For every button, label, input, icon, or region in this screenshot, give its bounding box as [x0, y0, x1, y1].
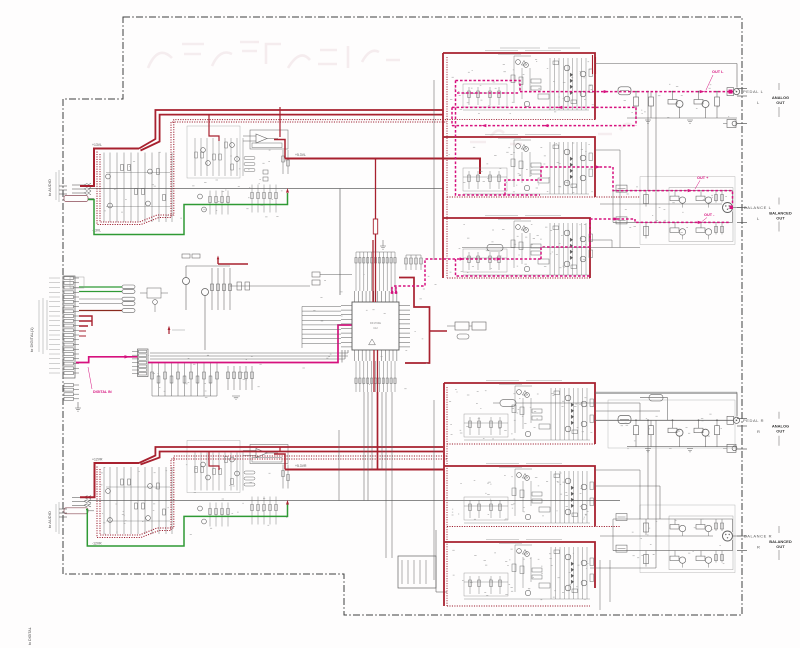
- amp block L1 internals: [463, 51, 593, 111]
- wire red pair below U12 (red): [374, 350, 378, 392]
- analog out network L: [595, 64, 789, 128]
- arrow OUT+: [596, 165, 601, 168]
- wire long verticals below U12: [339, 392, 392, 558]
- arrow red at green end: [286, 188, 289, 193]
- svg-text:R: R: [757, 429, 760, 434]
- amp block L2 internals: [463, 135, 593, 195]
- dotted bottom L1 (dark red): [447, 119, 595, 121]
- speckle power L: [104, 150, 287, 218]
- L power block internals (Q/R/C cluster): [64, 126, 289, 222]
- wire 26V stub (red): [593, 55, 596, 74]
- dotted bottom L3 (dark red): [447, 277, 590, 279]
- wire +12V staircase inner (red): [141, 452, 444, 465]
- wire vertical left of R blocks: [433, 400, 435, 580]
- connector J2 + ground: [64, 384, 81, 412]
- wire R2 feed: [595, 485, 660, 487]
- wire mid rail R (gray): [89, 500, 620, 502]
- dotted bottom R2 (dark red): [447, 526, 620, 528]
- speckle balance L: [625, 187, 730, 233]
- amp blocks L left edge (red): [442, 53, 444, 278]
- svg-text:+12VR: +12VR: [92, 458, 103, 462]
- op-chip U12 DF1704 with pins: [341, 291, 410, 361]
- wire vertical left of L blocks: [433, 80, 435, 260]
- wire R1 feed: [493, 402, 500, 404]
- wire dotted loop B (dark red): [100, 120, 447, 222]
- signal path OUT+ (magenta): [541, 167, 733, 205]
- speckle amp R2: [452, 473, 589, 520]
- amp block L3 internals: [463, 216, 593, 276]
- dotted bottom L2 (dark red): [447, 196, 640, 198]
- signal path L1 weave top (magenta): [456, 81, 521, 94]
- svg-text:OUT L: OUT L: [712, 70, 724, 74]
- resistor array below U12: [355, 361, 396, 392]
- component box bottom center: [398, 556, 436, 588]
- wire red spur (red): [430, 330, 448, 332]
- svg-text:PEDAL R: PEDAL R: [743, 418, 764, 423]
- wire red stub rows: [79, 331, 86, 336]
- connector J digital (21-pin): [49, 276, 79, 378]
- arrow digital in: [124, 355, 129, 358]
- signal path return upper (magenta): [452, 106, 636, 108]
- wire dotted loop RB (dark red): [100, 456, 447, 535]
- svg-text:+5.3VR: +5.3VR: [295, 464, 307, 468]
- caps at op-amp outlet: [263, 170, 268, 174]
- wire op-amp out to +5.3VL (red): [274, 140, 285, 159]
- junction dots R analog: [635, 419, 637, 421]
- signal path L3 weave (magenta): [541, 219, 590, 259]
- dotted vertical L blocks (dark red): [446, 57, 448, 278]
- wire verticals analog->balance L: [647, 92, 649, 191]
- wire dotted loop RA (dark red): [97, 459, 447, 538]
- analog out network R: [595, 392, 789, 452]
- wire +12VR rail (red): [80, 463, 139, 497]
- svg-text:OUT: OUT: [776, 544, 785, 549]
- svg-text:U12: U12: [373, 327, 378, 330]
- wire +5.3VL rail (red): [285, 159, 480, 175]
- speckle analog R: [621, 414, 722, 449]
- wire op-amp out to +5.3VR (red): [274, 454, 285, 470]
- wire gray top R feed: [595, 393, 737, 395]
- amp block R1 internals: [464, 381, 594, 441]
- ground mark above U12 right: [380, 240, 386, 249]
- faint watermark: [148, 42, 632, 144]
- jumper capsules green rows: [122, 285, 135, 289]
- wire DIGITAL IN (pink): [76, 325, 352, 363]
- balance out network R: [613, 505, 792, 573]
- speckle amp R3: [452, 549, 588, 600]
- amp block L1 outline (red): [443, 53, 595, 120]
- dotted vertical R blocks (dark red): [446, 387, 448, 606]
- svg-text:BALANCE R: BALANCE R: [744, 534, 772, 539]
- speckle lower connector: [148, 355, 262, 397]
- wire vertical x436: [435, 530, 437, 592]
- wire dotted loop A (dark red): [97, 122, 447, 225]
- amp block R2 internals: [464, 464, 594, 524]
- svg-text:to DIGITAL(1): to DIGITAL(1): [29, 327, 34, 352]
- wire gray row 4: [79, 303, 122, 305]
- left border ticks bottom: [59, 508, 67, 510]
- signal path OUT L (magenta): [520, 91, 733, 93]
- wire +13VL rail (red): [80, 149, 139, 187]
- wire +5.3VR rail (red): [285, 469, 444, 471]
- wire green return R: [86, 505, 288, 547]
- arrows on feed: [460, 257, 465, 260]
- arrows return path: [543, 124, 548, 127]
- dotted bottom R3 (dark red): [447, 605, 590, 607]
- arrow OUT-: [614, 217, 619, 220]
- arrow +3.3V supply: [168, 329, 170, 334]
- amp block R1 outline (red): [444, 383, 595, 444]
- wire rail-to-clusterB R (red): [209, 447, 280, 470]
- logic cluster right of U12: [447, 322, 486, 339]
- wire green row 2: [79, 291, 122, 293]
- jumper capsule dark red row: [122, 309, 135, 313]
- wire mid rail L (gray): [89, 188, 443, 190]
- amp blocks R left edge (red): [443, 383, 445, 606]
- speckle power R: [100, 465, 287, 535]
- wire red box right of U12 (red): [399, 278, 430, 364]
- speckle amp L3: [450, 224, 587, 272]
- speckle amp L1: [450, 60, 594, 114]
- amp block L2 outline (red): [443, 137, 595, 197]
- wire green row 1: [79, 286, 122, 288]
- wire gray row 3: [79, 298, 122, 300]
- wire green return L: [88, 193, 288, 235]
- wire gray R bottom verticals: [599, 560, 601, 610]
- speckle analog L: [624, 84, 736, 117]
- svg-text:OUT: OUT: [776, 100, 785, 105]
- wire balance L feed: [462, 247, 640, 249]
- wire gray R loop rect: [608, 400, 735, 448]
- signal path loop right vertical (magenta): [635, 107, 637, 125]
- signal path U12 to L3 (magenta): [392, 259, 541, 294]
- wire bus risers: [342, 350, 348, 363]
- arrowheads into U12: [390, 288, 393, 293]
- junction dots L analog: [635, 91, 637, 93]
- label audio power subtext top: [55, 172, 57, 200]
- svg-text:DIGITAL IN: DIGITAL IN: [93, 390, 112, 394]
- speckle balance R: [632, 519, 725, 563]
- arrows OUT L: [604, 90, 609, 93]
- amp block R2 outline (red): [444, 466, 595, 527]
- svg-text:OUT: OUT: [776, 216, 785, 221]
- wire red feed to R rail (red): [377, 392, 379, 470]
- amp block R3 internals: [464, 540, 594, 600]
- signal path OUT- (magenta): [590, 219, 729, 222]
- wire verticals analog->balance R: [647, 420, 649, 519]
- page border (dash-dot): [63, 17, 742, 615]
- wire gray net L3 out: [590, 239, 612, 241]
- wire vertical from rail to IC area: [339, 189, 341, 296]
- speckle center: [302, 274, 436, 388]
- right border ticks: [737, 89, 747, 551]
- wire rail-to-clusterB (red): [209, 107, 280, 141]
- amp block L3 outline (red): [443, 218, 590, 278]
- label digital subtext: [38, 300, 40, 352]
- wire bus bundle gray: [150, 352, 348, 354]
- svg-text:+13VL: +13VL: [92, 143, 102, 147]
- wire main analog R (gray): [595, 419, 733, 421]
- wire dark red row: [79, 310, 122, 312]
- R power block internals (Q/R/C cluster): [64, 441, 289, 535]
- speckle amp R1: [449, 390, 594, 440]
- arrow red at green end R: [286, 500, 289, 505]
- signal path L2 weave (magenta): [505, 167, 541, 195]
- wire R3 feed: [590, 567, 656, 569]
- jack dot magenta: [729, 90, 733, 94]
- wire +13V staircase inner (red): [141, 115, 444, 151]
- svg-text:DF1704E: DF1704E: [370, 321, 381, 325]
- svg-text:to AUDIO: to AUDIO: [47, 511, 52, 528]
- wire red short rail mid: [218, 259, 248, 265]
- svg-text:to DIGITAL: to DIGITAL: [28, 627, 32, 645]
- dotted bottom R1 (dark red): [447, 443, 595, 445]
- speckle amp L2: [449, 143, 593, 195]
- wire red steps in connector: [79, 316, 92, 326]
- svg-text:OUT: OUT: [776, 429, 785, 434]
- wire gray R mid lines: [595, 410, 660, 412]
- balance out network L: [613, 177, 792, 245]
- svg-text:-12VR: -12VR: [92, 542, 102, 546]
- wire stubs left of U12: [302, 307, 341, 349]
- misc top gray text: [500, 47, 540, 49]
- jumper capsules gray rows: [122, 297, 135, 301]
- svg-text:R: R: [757, 545, 760, 550]
- label audio power subtext bottom: [55, 504, 57, 532]
- transistor cluster mid-left: [70, 254, 352, 350]
- resistor array above U12: [355, 252, 396, 291]
- signal path big loop left (magenta): [456, 81, 541, 196]
- buffer IC + resistor array cluster: [132, 349, 253, 399]
- amp block R3 outline (red): [444, 542, 595, 588]
- svg-text:OUT -: OUT -: [704, 213, 715, 217]
- svg-text:BALANCE L: BALANCE L: [744, 205, 772, 210]
- resistor cluster above right of U12: [405, 255, 423, 270]
- signal path return lower (magenta): [452, 107, 636, 125]
- wire +12V staircase outer (red): [139, 447, 443, 463]
- svg-text:+5.3VL: +5.3VL: [295, 153, 306, 157]
- svg-text:OUT +: OUT +: [697, 176, 709, 180]
- wire gray net L mid: [595, 149, 620, 151]
- svg-text:to AUDIO: to AUDIO: [47, 179, 52, 196]
- svg-text:PEDAL L: PEDAL L: [743, 89, 764, 94]
- wire red pair to U12 top (red): [373, 159, 376, 302]
- left border ticks top: [59, 185, 67, 187]
- signal path L3 bottom (magenta): [456, 259, 591, 276]
- wire +13V staircase outer (red): [139, 110, 443, 149]
